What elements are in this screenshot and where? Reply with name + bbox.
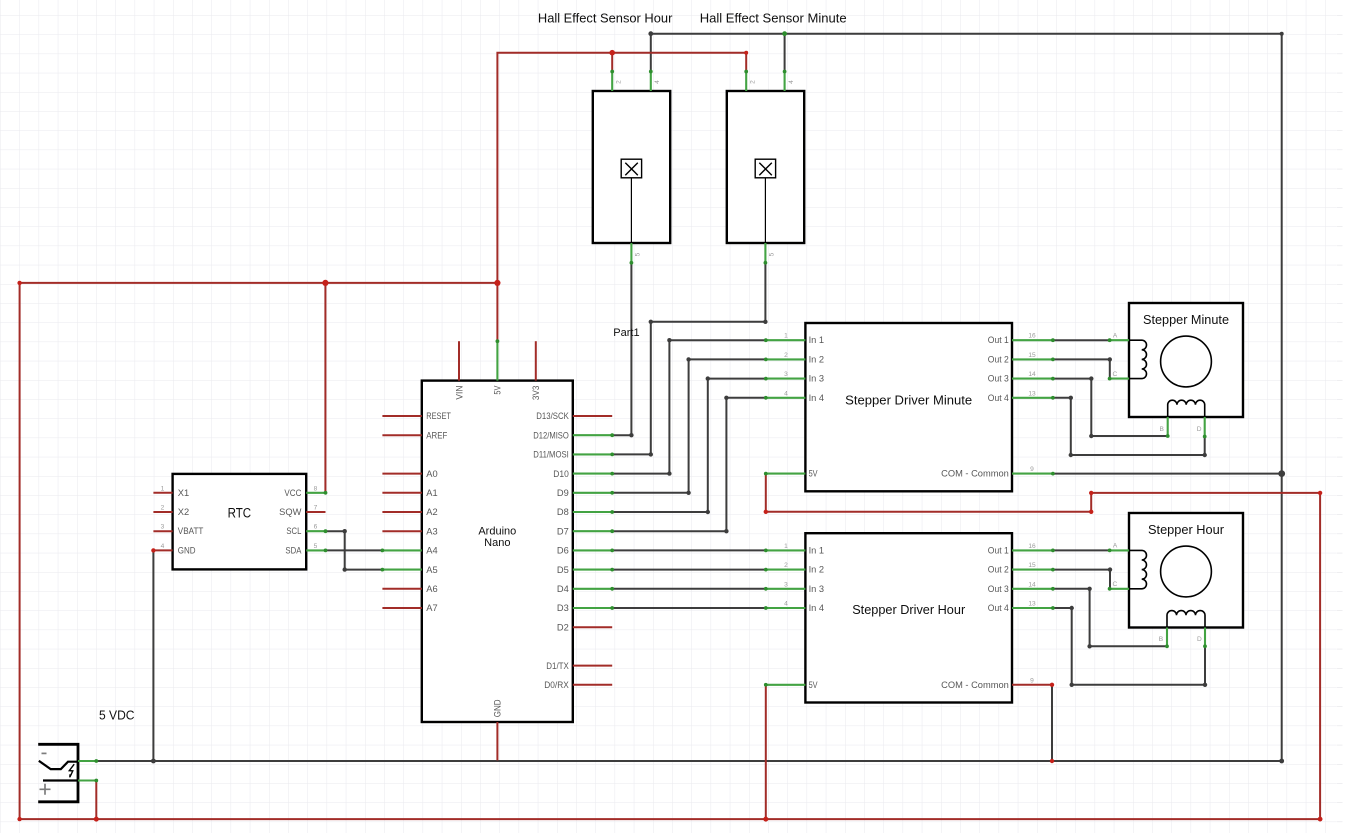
svg-text:4: 4 — [784, 601, 788, 608]
svg-text:B: B — [1159, 636, 1164, 643]
RTC SQW stub red — [306, 511, 325, 513]
svg-text:SCL: SCL — [286, 526, 301, 536]
svg-text:B: B — [1159, 426, 1164, 433]
svg-text:3V3: 3V3 — [531, 386, 541, 401]
hall minute pin 4 stub — [784, 72, 786, 92]
svg-text:SQW: SQW — [279, 507, 301, 517]
svg-text:D13/SCK: D13/SCK — [536, 411, 569, 421]
driver hour pin numbers — [784, 543, 1036, 684]
stepper minute A C stubs — [1110, 340, 1129, 378]
wire D5 to driver hour In2 — [612, 569, 766, 571]
stepper hour B D stubs — [1167, 628, 1205, 647]
svg-text:Hall Effect Sensor Hour: Hall Effect Sensor Hour — [538, 11, 673, 26]
svg-text:5V: 5V — [809, 469, 819, 479]
svg-text:D11/MOSI: D11/MOSI — [533, 450, 569, 460]
svg-text:Part1: Part1 — [613, 327, 639, 339]
svg-text:D1/TX: D1/TX — [546, 661, 569, 671]
svg-text:5: 5 — [635, 252, 642, 256]
svg-text:1: 1 — [784, 543, 788, 550]
wire driver minute Out2 to stepper C — [1053, 359, 1110, 378]
svg-text:A1: A1 — [426, 488, 437, 498]
driver minute left pin labels — [809, 335, 825, 478]
svg-text:In 3: In 3 — [809, 584, 825, 594]
svg-text:A7: A7 — [426, 603, 437, 613]
svg-text:D: D — [1197, 426, 1202, 433]
wire D4 to driver hour In3 — [612, 588, 766, 590]
svg-text:X2: X2 — [178, 507, 189, 517]
wire D9 to driver minute In2 — [612, 359, 766, 492]
svg-text:3: 3 — [784, 371, 788, 378]
arduino unconnected left stubs — [382, 416, 421, 608]
svg-text:A: A — [1113, 332, 1118, 339]
svg-text:1: 1 — [784, 333, 788, 340]
junction dots dark — [151, 31, 1285, 763]
wire driver hour 5V to bottom bus — [765, 685, 767, 819]
driver minute left stubs — [766, 340, 806, 473]
wire battery plus to bottom bus — [95, 781, 97, 820]
svg-text:D9: D9 — [557, 488, 569, 498]
svg-text:A0: A0 — [426, 469, 437, 479]
svg-text:Arduino: Arduino — [478, 526, 516, 538]
battery minus stub — [78, 760, 96, 762]
svg-text:5 VDC: 5 VDC — [99, 708, 135, 723]
svg-text:5: 5 — [769, 252, 776, 256]
stepper minute B D stubs — [1168, 417, 1205, 437]
wire driver minute Out1 to stepper A — [1053, 339, 1110, 341]
svg-text:In 4: In 4 — [809, 603, 825, 613]
svg-text:D2: D2 — [557, 622, 569, 632]
svg-text:D4: D4 — [557, 584, 569, 594]
RTC right pin labels — [279, 488, 302, 556]
svg-text:2: 2 — [749, 80, 756, 84]
svg-text:16: 16 — [1028, 543, 1036, 550]
svg-text:D10: D10 — [553, 469, 569, 479]
arduino right stubs green D12-D3 — [573, 435, 612, 608]
RTC VCC SCL SDA stubs green — [306, 493, 325, 551]
driver hour left pin labels — [809, 545, 825, 689]
junction dots green — [94, 31, 1207, 782]
svg-text:In 3: In 3 — [809, 374, 825, 384]
svg-text:A: A — [1113, 543, 1118, 550]
svg-text:Out 2: Out 2 — [988, 354, 1009, 364]
svg-text:D12/MISO: D12/MISO — [533, 430, 569, 440]
arduino GND bottom stub red — [496, 722, 498, 760]
wire RTC SCL to A5 — [326, 531, 383, 569]
svg-text:4: 4 — [788, 80, 795, 84]
wire RTC SDA to A4 — [326, 549, 383, 551]
svg-text:SDA: SDA — [285, 545, 302, 555]
svg-text:In 2: In 2 — [809, 354, 825, 364]
svg-text:In 2: In 2 — [809, 565, 825, 575]
stepper hour A C stubs — [1110, 550, 1129, 588]
battery 5VDC supply body — [38, 744, 78, 802]
svg-text:X1: X1 — [178, 488, 189, 498]
wire COM minute to right bus — [1053, 473, 1282, 475]
svg-text:13: 13 — [1028, 601, 1036, 608]
svg-text:15: 15 — [1028, 562, 1036, 569]
arduino left pin labels — [426, 411, 451, 613]
svg-text:GND: GND — [493, 699, 503, 717]
wire 5V to RTC VCC — [324, 283, 326, 493]
hall minute pin numbers — [749, 80, 795, 257]
svg-text:14: 14 — [1028, 371, 1036, 378]
label Hall Effect Sensor Hour — [538, 11, 673, 26]
wire driver hour Out1 to stepper A — [1053, 549, 1110, 551]
arduino nano U1 body — [422, 381, 573, 722]
arduino right pin labels — [533, 411, 569, 690]
driver minute pin numbers — [784, 333, 1036, 473]
wire driver minute Out4 to stepper D — [1053, 398, 1205, 455]
svg-text:D: D — [1197, 636, 1202, 643]
wire GND bottom bus — [96, 760, 1281, 762]
wire hall minute out to D11 — [612, 263, 765, 455]
stepper minute pin letters — [1113, 332, 1202, 433]
svg-text:5V: 5V — [493, 385, 503, 395]
stepper hour M2 body — [1129, 513, 1243, 628]
arduino top pin labels — [454, 385, 541, 400]
svg-text:A5: A5 — [426, 565, 437, 575]
svg-text:2: 2 — [161, 505, 165, 512]
svg-text:C: C — [1113, 371, 1118, 378]
svg-text:6: 6 — [314, 524, 318, 531]
svg-text:COM - Common: COM - Common — [941, 469, 1009, 479]
svg-text:16: 16 — [1028, 333, 1036, 340]
svg-text:7: 7 — [314, 505, 318, 512]
svg-text:In 4: In 4 — [809, 393, 825, 403]
svg-text:8: 8 — [314, 485, 318, 492]
svg-text:Stepper Hour: Stepper Hour — [1148, 522, 1225, 537]
svg-text:Hall Effect Sensor Minute: Hall Effect Sensor Minute — [700, 11, 847, 26]
svg-text:Out 4: Out 4 — [988, 393, 1009, 403]
svg-text:Out 2: Out 2 — [988, 565, 1009, 575]
svg-text:2: 2 — [784, 562, 788, 569]
svg-text:RESET: RESET — [426, 411, 451, 421]
svg-text:In 1: In 1 — [809, 335, 825, 345]
svg-text:9: 9 — [1030, 466, 1034, 473]
wire driver hour Out4 to stepper D — [1053, 608, 1205, 685]
hall minute pin 2 stub — [745, 72, 747, 92]
svg-text:2: 2 — [615, 80, 622, 84]
svg-text:A3: A3 — [426, 526, 437, 536]
svg-text:4: 4 — [654, 80, 661, 84]
hall hour pin 4 stub — [650, 72, 652, 92]
svg-text:AREF: AREF — [426, 430, 447, 440]
svg-text:VIN: VIN — [454, 386, 464, 400]
svg-text:A6: A6 — [426, 584, 437, 594]
svg-text:COM - Common: COM - Common — [941, 680, 1009, 690]
svg-text:D0/RX: D0/RX — [544, 680, 569, 690]
svg-text:Stepper Driver Minute: Stepper Driver Minute — [845, 393, 972, 408]
svg-text:VCC: VCC — [284, 488, 301, 498]
svg-text:A4: A4 — [426, 546, 437, 556]
wire COM hour to bus — [1051, 685, 1053, 761]
RTC left pin labels — [178, 488, 204, 556]
label 5 VDC — [99, 708, 135, 723]
hall hour pin 2 stub — [611, 72, 613, 92]
wire D8 to driver minute In3 — [612, 379, 766, 512]
svg-text:A2: A2 — [426, 507, 437, 517]
wire driver minute Out3 to stepper B — [1053, 379, 1168, 436]
svg-text:D3: D3 — [557, 603, 569, 613]
hall hour pin 5 stub — [630, 243, 632, 263]
wire hall hour out to D12 — [612, 263, 631, 435]
hall effect sensor minute body — [727, 91, 804, 243]
driver minute right stubs — [1012, 340, 1053, 473]
svg-text:Out 1: Out 1 — [988, 545, 1009, 555]
svg-text:Stepper Minute: Stepper Minute — [1143, 312, 1229, 327]
arduino bottom pin label GND — [493, 699, 503, 717]
stepper driver minute body — [805, 323, 1012, 491]
hall minute pin 5 stub — [764, 243, 766, 263]
svg-text:C: C — [1113, 581, 1118, 588]
svg-text:9: 9 — [1030, 677, 1034, 684]
svg-text:3: 3 — [784, 581, 788, 588]
svg-text:4: 4 — [161, 543, 165, 550]
svg-text:VBATT: VBATT — [178, 526, 204, 536]
stepper driver hour body — [805, 533, 1012, 702]
driver hour right stubs Out — [1012, 550, 1053, 608]
svg-text:Out 3: Out 3 — [988, 374, 1009, 384]
svg-text:GND: GND — [178, 545, 196, 555]
svg-text:14: 14 — [1028, 581, 1036, 588]
wire 5V top rail to hall sensors pin 2 — [497, 53, 746, 283]
svg-text:Nano: Nano — [484, 537, 510, 549]
RTC pin numbers — [161, 485, 318, 550]
wire RTC GND to bus — [152, 550, 154, 761]
battery plus stub — [78, 779, 96, 781]
wire 5V left rail — [20, 283, 1321, 819]
svg-text:Stepper Driver Hour: Stepper Driver Hour — [852, 602, 966, 617]
wire 5V to Arduino 5V pin — [496, 283, 498, 341]
arduino right stubs red — [573, 416, 612, 685]
wire driver hour Out3 to stepper B — [1053, 589, 1167, 647]
hall hour pin numbers — [615, 80, 661, 257]
svg-text:Out 1: Out 1 — [988, 335, 1009, 345]
svg-text:4: 4 — [784, 390, 788, 397]
svg-text:Out 4: Out 4 — [988, 603, 1009, 613]
wire D3 to driver hour In4 — [612, 607, 766, 609]
svg-text:3: 3 — [161, 524, 165, 531]
driver minute right pin labels — [941, 335, 1009, 478]
hall effect sensor hour body — [593, 91, 670, 243]
arduino A4 A5 stubs — [382, 550, 421, 569]
RTC left stubs red unconnected — [153, 493, 172, 551]
svg-text:5V: 5V — [809, 680, 819, 690]
label Hall Effect Sensor Minute — [700, 11, 847, 26]
svg-text:In 1: In 1 — [809, 545, 825, 555]
svg-text:1: 1 — [161, 485, 165, 492]
driver hour left stubs — [766, 550, 806, 684]
label Part1 — [613, 327, 639, 339]
wire driver hour Out2 to stepper C — [1053, 570, 1110, 589]
svg-text:Out 3: Out 3 — [988, 584, 1009, 594]
svg-text:5: 5 — [314, 543, 318, 550]
stepper hour pin letters — [1113, 543, 1203, 643]
wire 5V drop to hall hour pin 2 — [611, 53, 613, 72]
RTC U2 body — [173, 474, 307, 570]
svg-text:D8: D8 — [557, 507, 569, 517]
arduino 5V top stub green — [496, 341, 498, 380]
driver hour right pin labels — [941, 545, 1009, 689]
wire D6 to driver hour In1 — [612, 549, 766, 551]
svg-text:D6: D6 — [557, 546, 569, 556]
svg-text:2: 2 — [784, 352, 788, 359]
driver hour COM stub red — [1012, 684, 1052, 686]
wire GND top rail — [651, 34, 1282, 761]
svg-text:D7: D7 — [557, 526, 569, 536]
arduino top stubs VIN 3V3 red — [459, 341, 536, 380]
stepper minute M1 body — [1129, 303, 1243, 417]
wire D10 to driver minute In1 — [612, 340, 766, 473]
svg-text:13: 13 — [1028, 390, 1036, 397]
svg-text:D5: D5 — [557, 565, 569, 575]
svg-text:RTC: RTC — [228, 506, 252, 521]
wire D7 to driver minute In4 — [612, 398, 766, 531]
svg-text:15: 15 — [1028, 352, 1036, 359]
wire GND drop to hall minute pin 4 — [784, 34, 786, 72]
